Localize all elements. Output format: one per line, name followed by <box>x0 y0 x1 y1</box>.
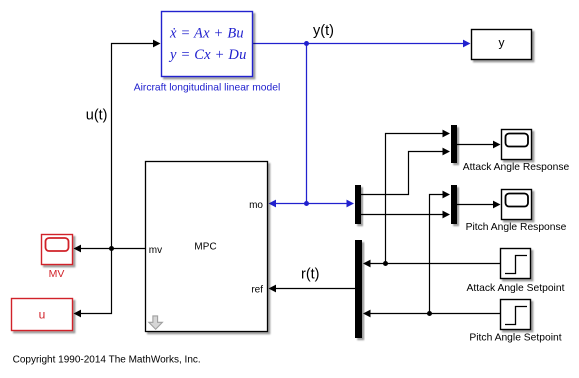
mux M2 (pitch) <box>451 185 457 224</box>
wire demux out1 to Mux1 in2 <box>361 152 444 195</box>
svg-text:Attack Angle Setpoint: Attack Angle Setpoint <box>467 283 565 294</box>
scope MV (red) <box>42 235 73 265</box>
svg-text:mv: mv <box>149 245 162 256</box>
arrow into mo port <box>269 200 277 208</box>
svg-text:u(t): u(t) <box>86 108 108 124</box>
outport u (red) <box>12 299 73 331</box>
arrow into demux <box>347 200 355 208</box>
MPC controller block <box>146 162 268 332</box>
wire r(t): big mux out to ref port <box>276 288 355 290</box>
arrow into state-space <box>153 40 161 48</box>
svg-text:Copyright 1990-2014 The MathWo: Copyright 1990-2014 The MathWorks, Inc. <box>13 354 201 365</box>
scope Pitch Angle Response <box>502 190 532 220</box>
svg-text:Pitch Angle Setpoint: Pitch Angle Setpoint <box>469 333 561 344</box>
wire blue vertical <box>306 44 308 204</box>
wire demux out2 to Mux2 in2 <box>361 214 444 216</box>
wire pitch setpoint to big mux <box>371 313 501 315</box>
wire attack setpoint to big mux <box>371 263 501 265</box>
svg-text:Attack Angle Response: Attack Angle Response <box>463 162 570 173</box>
svg-text:MPC: MPC <box>194 242 216 253</box>
mux M3 (setpoints, to ref) <box>355 240 362 338</box>
svg-text:ref: ref <box>251 285 263 296</box>
wire Mux2 out to Pitch scope <box>457 204 494 206</box>
svg-text:y = Cx + Du: y = Cx + Du <box>168 47 247 63</box>
arrow into u outport <box>74 310 82 318</box>
node y(t) junction <box>304 41 309 46</box>
wire mv: MPC mv out to junction <box>112 248 146 250</box>
arrow into y outport <box>463 40 471 48</box>
svg-text:r(t): r(t) <box>301 267 320 283</box>
node mv junction <box>109 246 114 251</box>
node attack setpoint junction <box>383 261 388 266</box>
svg-text:Pitch Angle Response: Pitch Angle Response <box>466 222 567 233</box>
node pitch setpoint junction <box>427 311 432 316</box>
svg-text:MV: MV <box>49 268 65 280</box>
svg-text:y(t): y(t) <box>313 23 334 39</box>
svg-text:ẋ = Ax + Bu: ẋ = Ax + Bu <box>169 26 244 42</box>
outport y <box>472 30 532 60</box>
svg-text:y: y <box>499 36 505 50</box>
state-space block: Aircraft longitudinal linear model <box>162 12 253 77</box>
wire branch to MV scope <box>81 248 112 250</box>
step Pitch Angle Setpoint <box>501 300 531 330</box>
wire Mux1 out to Attack scope <box>457 144 494 146</box>
node mo junction <box>304 201 309 206</box>
svg-text:u: u <box>39 308 46 322</box>
wire pitch setpoint branch up to Mux2 in1 <box>430 195 444 314</box>
wire u(t) vertical up to plant input <box>112 44 154 249</box>
svg-text:mo: mo <box>249 200 263 211</box>
step Attack Angle Setpoint <box>501 249 531 279</box>
wire y(t): state-space output (blue) <box>253 43 464 45</box>
wire attack setpoint branch up to Mux1 in1 <box>386 134 444 264</box>
arrow into MV scope <box>74 245 82 253</box>
scope Attack Angle Response <box>502 130 532 160</box>
demux (plant outputs) <box>355 185 361 224</box>
wire branch to demux <box>307 203 347 205</box>
svg-text:Aircraft longitudinal linear m: Aircraft longitudinal linear model <box>134 82 281 93</box>
mux M1 (attack) <box>451 125 457 163</box>
MPC mask down-arrow badge <box>149 316 163 329</box>
wire branch down to u outport <box>81 249 112 314</box>
wire branch to mo port <box>276 203 307 205</box>
